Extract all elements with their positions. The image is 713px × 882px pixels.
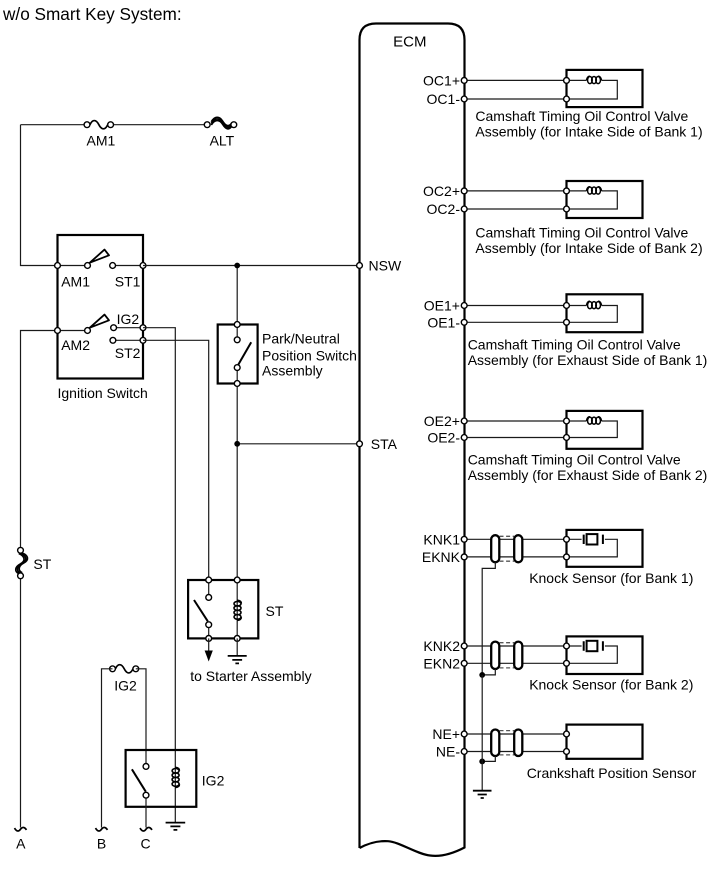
svg-text:KNK2: KNK2 [423, 638, 460, 654]
pin STA [357, 441, 363, 447]
wire OC2+ [464, 190, 566, 192]
svg-text:A: A [16, 835, 26, 851]
svg-text:EKN2: EKN2 [423, 655, 460, 671]
relay IG2 box [126, 750, 197, 807]
wire AM2 to ST fusible link and connector A [21, 331, 58, 828]
wire OE2+ [464, 420, 566, 422]
svg-text:ST: ST [266, 603, 284, 619]
shielded cable NE [491, 730, 522, 757]
svg-text:C: C [140, 835, 150, 851]
wire NE+ [464, 733, 566, 735]
svg-text:AM2: AM2 [61, 337, 90, 353]
wire fuse IG2 left to connector B [102, 669, 113, 828]
svg-text:Assembly (for Intake Side of B: Assembly (for Intake Side of Bank 1) [475, 123, 702, 139]
svg-text:Assembly (for Exhaust Side of: Assembly (for Exhaust Side of Bank 1) [468, 352, 708, 368]
svg-text:Camshaft Timing Oil Control Va: Camshaft Timing Oil Control Valve [475, 108, 688, 124]
pins KNK1 [461, 536, 569, 559]
wire OE1+ [464, 305, 566, 307]
relay IG2 switch blade [132, 769, 146, 791]
svg-text:Camshaft Timing Oil Control Va: Camshaft Timing Oil Control Valve [475, 225, 688, 241]
wire top feed horizontal [21, 124, 208, 126]
svg-text:Assembly (for Exhaust Side of: Assembly (for Exhaust Side of Bank 2) [468, 467, 708, 483]
svg-text:Park/Neutral: Park/Neutral [262, 330, 340, 346]
relay IG2 contacts [143, 764, 149, 770]
svg-text:OE1-: OE1- [427, 314, 460, 330]
piezo element inside knock sensor 1 [567, 534, 618, 557]
oil control valve OCV3 box [567, 294, 643, 332]
svg-text:Ignition Switch: Ignition Switch [58, 385, 148, 401]
ignition switch lever AM2 [90, 315, 109, 328]
svg-text:Camshaft Timing Oil Control Va: Camshaft Timing Oil Control Valve [468, 452, 681, 468]
fuse IG2 [115, 665, 133, 673]
ignition switch contacts [55, 263, 61, 269]
wire ignition row2 internal [58, 328, 144, 341]
park/neutral internal wires [236, 325, 238, 384]
connector break A [15, 827, 27, 831]
pins OE1 [461, 303, 569, 326]
svg-text:w/o Smart Key System:: w/o Smart Key System: [2, 4, 182, 24]
park/neutral position switch box [218, 325, 258, 384]
svg-text:to Starter Assembly: to Starter Assembly [190, 668, 311, 684]
wire fuse IG2 right to relay contact [136, 669, 146, 764]
wire ST2 from ignition to ST relay [143, 340, 209, 580]
oil control valve OCV2 box [567, 181, 643, 218]
connector break B [96, 827, 108, 831]
svg-text:Assembly (for Intake Side of B: Assembly (for Intake Side of Bank 2) [475, 240, 702, 256]
pins KNK2 [461, 643, 569, 666]
pins OC1 [461, 78, 569, 102]
svg-text:ST1: ST1 [115, 273, 141, 289]
wire ignition row1 internal [58, 265, 144, 267]
relay ST switch wires [209, 580, 238, 638]
svg-text:OC1+: OC1+ [423, 72, 460, 88]
wire park/neutral vertical [236, 266, 238, 581]
fusible link ST [16, 547, 28, 578]
piezo element inside knock sensor 2 [567, 641, 618, 664]
svg-text:KNK1: KNK1 [423, 531, 460, 547]
pins OE2 [461, 418, 569, 440]
svg-text:ECM: ECM [393, 33, 426, 50]
svg-text:OC2+: OC2+ [423, 183, 460, 199]
svg-text:ALT: ALT [210, 133, 235, 149]
wire OC1- [464, 98, 566, 100]
svg-text:AM1: AM1 [87, 133, 116, 149]
svg-text:IG2: IG2 [114, 678, 137, 694]
ground shield drain [473, 791, 492, 798]
svg-text:OE2-: OE2- [427, 430, 460, 446]
svg-text:ST: ST [33, 556, 51, 572]
svg-text:ST2: ST2 [115, 345, 141, 361]
node shield drain junction 1 [479, 672, 485, 678]
svg-text:B: B [97, 835, 106, 851]
arrow to starter assembly [208, 638, 210, 651]
relay ST box [188, 580, 258, 638]
knock sensor 2 box [567, 636, 643, 674]
svg-text:Knock Sensor (for Bank 2): Knock Sensor (for Bank 2) [529, 677, 693, 693]
svg-text:Assembly: Assembly [262, 363, 323, 379]
svg-text:NSW: NSW [369, 258, 402, 274]
ground below IG2 relay coil [166, 823, 186, 830]
park/neutral switch blade [238, 342, 251, 364]
node NSW junction [234, 263, 240, 269]
svg-text:IG2: IG2 [117, 311, 140, 327]
coil inside oil control valve OCV1 [567, 76, 618, 99]
coil inside oil control valve OCV4 [567, 417, 618, 438]
wire KNK2+ [464, 645, 566, 647]
svg-text:NE-: NE- [436, 744, 460, 760]
wire OC2- [464, 208, 566, 210]
svg-text:IG2: IG2 [202, 773, 225, 789]
svg-text:Position Switch: Position Switch [262, 347, 357, 363]
wire shield drain to ground [481, 675, 483, 791]
wire STA [237, 443, 359, 445]
wire KNK2- [464, 662, 566, 664]
relay IG2 coil [172, 767, 179, 787]
svg-text:NE+: NE+ [432, 726, 460, 742]
relay ST switch blade [194, 600, 208, 621]
shield drain wire KNK2 [482, 669, 495, 675]
relay ST pins [206, 577, 212, 583]
ground below ST relay coil [236, 638, 238, 656]
connector break C [140, 827, 152, 831]
svg-text:AM1: AM1 [61, 273, 90, 289]
crankshaft position sensor box [567, 725, 643, 759]
svg-text:EKNK: EKNK [422, 549, 461, 565]
park/neutral contacts [234, 322, 240, 328]
coil inside oil control valve OCV2 [567, 187, 618, 209]
shielded cable KNK1 [491, 535, 522, 562]
wire OC1+ [464, 79, 566, 81]
shield drain wire KNK1 [482, 562, 495, 675]
node shield drain junction 2 [479, 759, 485, 765]
wire IG2 relay switch to connector C [145, 798, 147, 827]
fuse AM1 [90, 121, 108, 129]
svg-text:OE2+: OE2+ [424, 413, 460, 429]
svg-text:OC1-: OC1- [427, 91, 461, 107]
fusible link ALT [204, 117, 236, 129]
svg-text:STA: STA [371, 436, 398, 452]
shielded cable KNK2 [491, 642, 522, 669]
pin NSW [357, 263, 363, 269]
node STA junction [234, 441, 240, 447]
wire OE1- [464, 321, 566, 323]
wire NSW [143, 265, 360, 267]
ECM box [360, 24, 465, 856]
svg-text:Camshaft Timing Oil Control Va: Camshaft Timing Oil Control Valve [468, 336, 681, 352]
svg-text:Crankshaft Position Sensor: Crankshaft Position Sensor [527, 765, 697, 781]
wire IG2 from ignition to IG2 relay coil [143, 328, 175, 823]
pins OC2 [461, 188, 569, 212]
coil inside oil control valve OCV3 [567, 301, 618, 322]
ignition switch lever AM1 [90, 250, 109, 263]
wire KNK1- [464, 556, 566, 558]
svg-text:Knock Sensor (for Bank 1): Knock Sensor (for Bank 1) [529, 570, 693, 586]
pins NE [461, 731, 569, 754]
shield drain wire NE [482, 756, 495, 761]
wire left vertical to AM1 [21, 125, 58, 266]
svg-text:OE1+: OE1+ [424, 298, 460, 314]
wire OE2- [464, 437, 566, 439]
knock sensor 1 box [567, 530, 643, 567]
wire KNK1+ [464, 538, 566, 540]
wire NE- [464, 751, 566, 753]
svg-text:OC2-: OC2- [427, 201, 461, 217]
relay ST coil [234, 600, 241, 620]
oil control valve OCV1 box [567, 70, 643, 107]
oil control valve OCV4 box [567, 411, 643, 449]
ignition switch box [58, 235, 144, 379]
